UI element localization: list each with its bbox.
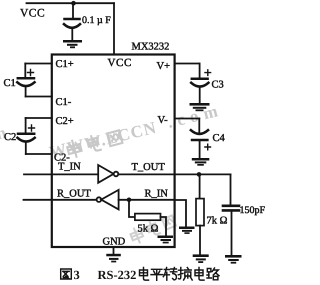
电 bbox=[195, 268, 204, 281]
svg-text:150pF: 150pF bbox=[240, 205, 266, 216]
capacitor C6 150pF top plate bbox=[223, 205, 239, 208]
ground below 7k bbox=[193, 254, 209, 263]
svg-text:T_OUT: T_OUT bbox=[132, 162, 166, 173]
wire VCC top rail bbox=[27, 2, 115, 4]
svg-text:C4: C4 bbox=[213, 133, 226, 144]
watermark 中电网 (upper band) bbox=[66, 128, 123, 158]
svg-text:T_IN: T_IN bbox=[58, 161, 81, 172]
转 bbox=[163, 268, 176, 281]
svg-text:VCC: VCC bbox=[20, 7, 45, 19]
wire C1- pin bbox=[26, 96, 52, 98]
capacitor C1 lower stem bbox=[25, 86, 27, 97]
inverter bubble R receiver bbox=[97, 197, 102, 202]
svg-text:0.1 µ F: 0.1 µ F bbox=[82, 15, 111, 26]
capacitor C2 plus sign bbox=[29, 125, 35, 131]
capacitor C1 top plate bbox=[18, 77, 34, 80]
ground below 5k bbox=[158, 236, 174, 244]
capacitor C5 arc plate bbox=[64, 24, 80, 28]
wire R_IN external to ground bbox=[175, 200, 186, 227]
换 bbox=[178, 268, 192, 281]
watermark 中电 (lower fragment) bbox=[129, 214, 177, 245]
ground below C4 bbox=[192, 158, 210, 166]
capacitor C6 150pF bottom plate bbox=[223, 209, 239, 212]
wire C2+ pin bbox=[26, 117, 52, 119]
capacitor C3 lower stem bbox=[199, 87, 201, 104]
svg-text:V+: V+ bbox=[157, 61, 171, 72]
wire 7k to ground bbox=[199, 226, 201, 255]
平 bbox=[151, 269, 162, 280]
capacitor C4 plus sign bbox=[205, 144, 211, 150]
svg-text:7k Ω: 7k Ω bbox=[207, 215, 228, 226]
wire GND pin stem bbox=[113, 247, 115, 254]
capacitor C1 plus sign bbox=[28, 70, 34, 76]
transistor buffer R receiver triangle bbox=[101, 190, 118, 210]
capacitor C6 lower stem bbox=[231, 212, 233, 255]
junction dot at C5 tap bbox=[71, 1, 76, 6]
wire T_OUT internal bbox=[118, 173, 174, 175]
capacitor C1 upper stem bbox=[24, 64, 26, 77]
svg-text:C1: C1 bbox=[4, 78, 16, 89]
svg-text:R_IN: R_IN bbox=[145, 189, 169, 200]
路 bbox=[207, 268, 219, 280]
ground below GND pin bbox=[106, 254, 121, 263]
capacitor C4 upper stem bbox=[198, 119, 200, 133]
capacitor C1 arc plate bbox=[17, 82, 34, 86]
ground below C3 bbox=[190, 103, 210, 111]
电 bbox=[140, 268, 149, 281]
svg-text:MX3232: MX3232 bbox=[132, 42, 170, 53]
wire R_OUT external bbox=[24, 199, 97, 201]
svg-text:3: 3 bbox=[74, 268, 80, 282]
svg-text:VCC: VCC bbox=[108, 57, 132, 69]
capacitor C4 lower stem bbox=[199, 141, 201, 158]
label caption 电平转换电路 glyphs bbox=[140, 268, 220, 281]
wire 7k drop bbox=[199, 174, 201, 198]
svg-text:C1+: C1+ bbox=[56, 59, 74, 70]
capacitor C2 top plate bbox=[18, 133, 34, 136]
wire C1+ pin bbox=[25, 63, 52, 65]
ground below C5 bbox=[63, 40, 82, 48]
inverter bubble T driver bbox=[114, 172, 119, 177]
wire 5k drop bbox=[129, 200, 135, 217]
capacitor C3 top plate bbox=[192, 78, 208, 81]
junction dot T_OUT bbox=[197, 172, 202, 177]
capacitor C4 arc plate bbox=[191, 130, 208, 134]
ground below R_IN bbox=[179, 227, 195, 234]
capacitor C3 arc plate bbox=[191, 83, 208, 87]
label caption 图3 glyph bbox=[61, 269, 72, 279]
capacitor C2 lower stem bbox=[25, 142, 27, 155]
capacitor C5 top plate bbox=[65, 18, 80, 21]
svg-text:GND: GND bbox=[103, 236, 126, 247]
wire V+ pin bbox=[175, 63, 200, 65]
capacitor C3 plus sign bbox=[205, 70, 211, 76]
svg-text:C3: C3 bbox=[212, 79, 224, 90]
wire 5k to ground bbox=[161, 217, 167, 236]
wire T_IN external bbox=[24, 173, 98, 175]
capacitor C5 lower stem bbox=[71, 28, 73, 41]
svg-text:C2+: C2+ bbox=[56, 116, 74, 127]
capacitor C4 bottom plate bbox=[192, 139, 207, 142]
svg-text:C2: C2 bbox=[4, 132, 16, 143]
wire V- pin bbox=[175, 118, 200, 120]
ground below 150pF bbox=[225, 255, 242, 264]
svg-text:C1-: C1- bbox=[56, 97, 72, 108]
resistor R1 7k body bbox=[196, 199, 204, 226]
wire R_IN internal bbox=[119, 199, 175, 201]
transistor buffer T driver triangle bbox=[98, 165, 113, 183]
resistor R2 5k body bbox=[135, 214, 161, 221]
junction dot R line bbox=[127, 198, 132, 203]
svg-text:RS-232: RS-232 bbox=[98, 268, 137, 282]
svg-text:5k Ω: 5k Ω bbox=[138, 223, 159, 234]
wire T_OUT external bbox=[175, 173, 231, 175]
capacitor C3 upper stem bbox=[199, 64, 201, 78]
wire 150pF drop bbox=[230, 174, 232, 204]
capacitor C2 arc plate bbox=[18, 138, 35, 142]
wire C2- pin bbox=[26, 153, 52, 155]
op-amp U1 MX3232 chip body bbox=[52, 55, 175, 248]
capacitor C5 0.1uF stem bbox=[72, 3, 74, 18]
capacitor C2 upper stem bbox=[25, 118, 27, 132]
wire VCC drop to chip bbox=[113, 3, 115, 54]
svg-text:R_OUT: R_OUT bbox=[57, 189, 91, 200]
svg-text:V-: V- bbox=[158, 115, 169, 126]
